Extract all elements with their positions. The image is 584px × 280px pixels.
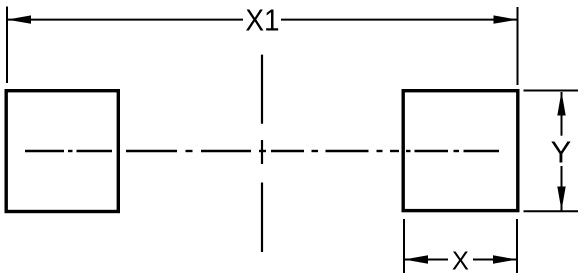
horizontal centerline dash-dot segments <box>25 150 499 152</box>
extension line right (X) <box>516 219 518 273</box>
arrowhead X left <box>404 255 428 263</box>
arrowhead X1 left <box>7 15 31 23</box>
vertical centerline lower segment <box>261 183 263 253</box>
extension line top (Y) <box>524 90 579 92</box>
arrowhead Y down <box>557 187 565 211</box>
extension line bottom (Y) <box>524 210 579 212</box>
dimension line X1 right segment <box>281 19 518 21</box>
dimension line X1 left segment <box>7 19 243 21</box>
extension line right (X1) <box>517 7 519 85</box>
pad P2 (right square) <box>403 91 518 211</box>
arrowhead X1 right <box>494 15 518 23</box>
pad P1 (left square) <box>6 91 118 212</box>
dimension line Y lower segment <box>561 166 563 211</box>
svg-text:X1: X1 <box>245 3 279 38</box>
vertical centerline short dash at crossing <box>261 140 263 164</box>
arrowhead X right <box>493 255 517 263</box>
dimension line X right segment <box>473 259 517 261</box>
extension line left (X) <box>403 219 405 273</box>
dimension line Y upper segment <box>561 92 563 136</box>
arrowhead Y up <box>557 92 565 116</box>
extension line left (X1) <box>6 7 8 84</box>
vertical centerline upper segment <box>261 55 263 124</box>
dimension line X left segment <box>404 259 448 261</box>
svg-text:Y: Y <box>551 134 572 169</box>
svg-text:X: X <box>452 247 469 275</box>
